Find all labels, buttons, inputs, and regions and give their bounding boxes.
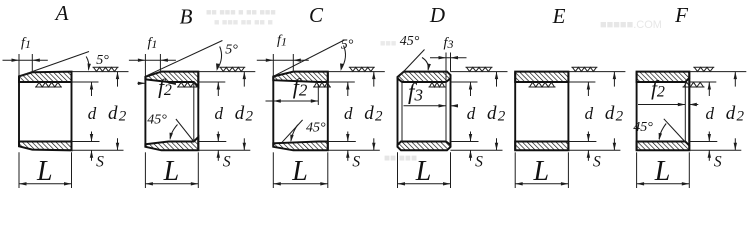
svg-text:E: E [552, 4, 566, 28]
svg-text:d: d [344, 104, 353, 123]
svg-text:45°: 45° [400, 34, 420, 49]
svg-text:■ ■■■ ■■ ■■ ■: ■ ■■■ ■■ ■■ ■ [214, 17, 273, 27]
svg-text:S: S [714, 154, 722, 171]
svg-text:F: F [674, 3, 688, 27]
svg-text:S: S [475, 154, 483, 171]
svg-text:d: d [215, 104, 224, 123]
svg-text:C: C [309, 3, 324, 27]
svg-text:d: d [585, 104, 594, 123]
svg-text:5°: 5° [96, 53, 109, 68]
svg-text:L: L [291, 156, 308, 187]
svg-text:45°: 45° [633, 120, 653, 135]
svg-text:■■ ■■■ ■ ■■ ■■■: ■■ ■■■ ■ ■■ ■■■ [206, 7, 276, 17]
svg-text:d: d [88, 104, 97, 123]
svg-text:S: S [96, 154, 104, 171]
svg-text:L: L [415, 156, 432, 187]
svg-text:B: B [180, 5, 193, 29]
svg-text:5°: 5° [225, 43, 238, 58]
svg-text:L: L [533, 156, 550, 187]
svg-text:S: S [223, 154, 231, 171]
svg-text:L: L [36, 156, 53, 187]
svg-text:d: d [706, 104, 715, 123]
svg-text:■■■: ■■■ [380, 38, 396, 48]
svg-text:■■■■■.COM: ■■■■■.COM [600, 19, 662, 31]
svg-text:45°: 45° [306, 121, 326, 136]
svg-text:L: L [163, 156, 180, 187]
svg-text:f1: f1 [21, 36, 31, 52]
svg-text:f1: f1 [277, 33, 287, 49]
svg-text:S: S [593, 154, 601, 171]
svg-text:f1: f1 [147, 36, 157, 52]
svg-text:5°: 5° [341, 38, 354, 53]
svg-text:■■ ■■■: ■■ ■■■ [384, 153, 417, 164]
svg-text:D: D [429, 3, 445, 27]
svg-text:45°: 45° [147, 113, 167, 128]
svg-text:d: d [467, 104, 476, 123]
svg-text:L: L [654, 156, 671, 187]
svg-text:A: A [54, 1, 69, 25]
svg-text:S: S [352, 154, 360, 171]
svg-text:f3: f3 [444, 36, 454, 52]
